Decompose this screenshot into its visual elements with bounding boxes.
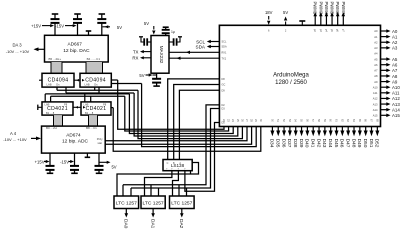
bus CD4021 to ADC right	[89, 115, 98, 126]
wire net E (CD4021 clock to D24)	[44, 94, 46, 102]
svg-text:SDA: SDA	[222, 46, 227, 49]
ADC U6 AD674	[42, 126, 106, 153]
DAC U12 LTC1257	[170, 196, 195, 209]
svg-text:LAB: LAB	[47, 83, 52, 87]
svg-text:B0 ...2H: B0 ...2H	[46, 126, 57, 130]
svg-text:DA0: DA0	[123, 219, 129, 229]
wire Arduino GC to LS138 B	[174, 85, 220, 160]
svg-text:+15V: +15V	[35, 159, 45, 164]
svg-text:A15: A15	[392, 113, 400, 118]
svg-text:RX: RX	[132, 56, 138, 61]
svg-text:D52: D52	[374, 139, 380, 148]
svg-text:A1: A1	[392, 34, 398, 39]
capacitor C4 (+15V bypass)	[49, 153, 51, 166]
svg-text:5V: 5V	[111, 164, 116, 169]
svg-text:A11: A11	[392, 91, 400, 96]
svg-text:A7: A7	[392, 68, 398, 73]
svg-text:B5 ...2H+: B5 ...2H+	[49, 57, 62, 61]
svg-text:D35: D35	[275, 139, 281, 148]
wire net B (CD4094R pin2 to D29)	[111, 83, 141, 85]
svg-text:A14: A14	[392, 107, 400, 112]
bus CD4021 to ADC left	[54, 115, 63, 126]
svg-text:D47: D47	[344, 139, 350, 148]
wire net H (CD4021R out to D30)	[111, 107, 113, 109]
svg-text:A8: A8	[374, 74, 378, 78]
svg-text:PWM4: PWM4	[324, 2, 329, 15]
node DA1 output	[152, 209, 154, 214]
svg-text:D36: D36	[280, 139, 286, 148]
node RX	[143, 57, 151, 59]
capacitor C7 (1u)	[163, 26, 169, 28]
IC U7 MAX232	[151, 36, 169, 74]
wire LS138 Y3 to Arduino D5	[185, 123, 220, 192]
shift register U3 CD4094	[80, 73, 111, 87]
svg-text:LAB: LAB	[45, 102, 50, 106]
svg-text:B1 ... 8: B1 ... 8	[85, 111, 94, 115]
svg-text:5V: 5V	[144, 21, 149, 26]
svg-text:P8: P8	[64, 102, 68, 106]
wire U4-U5 link	[73, 106, 81, 108]
svg-text:AD667: AD667	[68, 41, 83, 46]
svg-text:D48: D48	[350, 139, 356, 148]
svg-text:DA 3: DA 3	[12, 42, 22, 47]
svg-text:A0: A0	[374, 29, 378, 33]
power 5V pin	[285, 22, 287, 26]
wire MAX232 to Arduino RX1	[169, 51, 219, 53]
wire ADC stat to D28	[105, 127, 251, 145]
node SCL	[211, 41, 220, 43]
shift register U2 CD4094	[42, 73, 74, 87]
svg-text:A1: A1	[374, 35, 378, 39]
label 5V	[103, 26, 111, 28]
svg-text:A10: A10	[392, 85, 400, 90]
svg-text:LTC 1257: LTC 1257	[171, 201, 192, 207]
svg-text:D50: D50	[362, 139, 368, 148]
capacitor C10 bottom	[156, 73, 158, 79]
ground ADC	[86, 153, 88, 157]
svg-text:A8: A8	[392, 74, 398, 79]
svg-text:PWM5: PWM5	[330, 2, 335, 15]
svg-text:RX1: RX1	[222, 52, 227, 55]
svg-text:D51: D51	[368, 139, 374, 148]
svg-text:D42: D42	[315, 139, 321, 148]
svg-text:PWM3: PWM3	[318, 2, 323, 15]
svg-text:DA2: DA2	[178, 219, 184, 229]
svg-text:CD4094: CD4094	[85, 77, 106, 83]
svg-text:18V: 18V	[265, 10, 273, 15]
svg-text:A2: A2	[374, 40, 378, 44]
svg-text:-10V ... +10V: -10V ... +10V	[3, 137, 27, 142]
wire LS138 Y1 to LTC2 CS	[145, 171, 172, 196]
DAC U11 LTC1257	[141, 196, 165, 209]
svg-text:A4: A4	[374, 52, 378, 56]
svg-text:A5: A5	[392, 57, 398, 62]
capacitor C6 (5V bypass)	[98, 153, 100, 166]
svg-text:A12: A12	[373, 97, 378, 101]
svg-text:SDA: SDA	[196, 44, 206, 49]
svg-text:A6: A6	[374, 63, 378, 67]
wire Arduino D2 to LTC CLK rail	[123, 105, 219, 185]
wire Arduino D9 to LS138 A	[179, 90, 219, 159]
node DA 3 output	[37, 48, 45, 50]
shift register U4 CD4021	[42, 102, 73, 115]
input stub U4 left	[37, 105, 39, 110]
svg-text:-15V: -15V	[60, 159, 69, 164]
ground	[88, 31, 90, 35]
wire LS138 Y2 to LTC3 CS	[173, 171, 179, 196]
svg-text:B1 ... 8: B1 ... 8	[46, 111, 55, 115]
svg-text:B8 ...C1: B8 ...C1	[86, 126, 97, 130]
digital pins D34-D52	[271, 127, 273, 132]
svg-text:GC: GC	[222, 84, 226, 87]
svg-text:D46: D46	[339, 139, 345, 148]
capacitor C3 (5V bypass)	[99, 13, 106, 15]
svg-text:A10: A10	[373, 85, 378, 89]
capacitor C8 left	[147, 41, 152, 43]
wire net C (CD4094L clock to D26)	[56, 87, 58, 90]
svg-text:D41: D41	[310, 139, 316, 148]
svg-text:A0: A0	[392, 29, 398, 34]
svg-text:A15: A15	[373, 114, 378, 118]
svg-text:A11: A11	[373, 91, 378, 95]
PWM output pins PWM2-PWM7	[314, 16, 316, 26]
MCU U8 ArduinoMega	[219, 25, 380, 126]
svg-text:12 bip. DAC: 12 bip. DAC	[63, 48, 90, 54]
svg-text:A7: A7	[374, 69, 378, 73]
svg-text:D49: D49	[356, 139, 362, 148]
wire U2-U3 link	[74, 79, 80, 81]
bus DAC to CD4094 left	[51, 62, 62, 73]
stub U2 left	[39, 79, 42, 81]
svg-text:C: C	[167, 162, 169, 165]
svg-text:A13: A13	[392, 102, 400, 107]
wire Arduino D8 to LS138 C	[168, 79, 220, 160]
svg-text:TX1: TX1	[222, 57, 227, 60]
label 5V	[99, 161, 107, 163]
svg-text:CD4094: CD4094	[48, 77, 69, 83]
decoder U9 LS138	[163, 160, 192, 171]
DAC U1 AD667	[45, 35, 109, 62]
svg-text:A9: A9	[374, 80, 378, 84]
svg-text:A13: A13	[373, 102, 378, 106]
svg-text:DA1: DA1	[149, 219, 155, 229]
svg-text:1μ: 1μ	[171, 30, 175, 34]
svg-text:TX: TX	[133, 50, 139, 55]
bus DAC to CD4094 right	[86, 62, 103, 73]
wire net D (CD4094L data to D25)	[65, 87, 67, 93]
shift register U5 CD4021	[81, 102, 111, 115]
wire MAX232 to Arduino TX1	[169, 57, 219, 59]
svg-text:PWM6: PWM6	[335, 2, 340, 15]
svg-text:+15V: +15V	[31, 23, 41, 28]
svg-text:LTC 1257: LTC 1257	[116, 201, 137, 207]
svg-text:12 bip. ADC: 12 bip. ADC	[62, 138, 89, 144]
svg-text:A14: A14	[373, 108, 378, 112]
svg-text:D45: D45	[333, 139, 339, 148]
svg-text:A3: A3	[392, 46, 398, 51]
svg-text:PWM2: PWM2	[313, 2, 318, 15]
wire LS138 Y0 to LTC1 CS	[117, 163, 199, 197]
svg-text:1280 / 2560: 1280 / 2560	[275, 80, 307, 86]
svg-text:-15V: -15V	[55, 23, 64, 28]
svg-text:A12: A12	[392, 96, 400, 101]
svg-text:D38: D38	[292, 139, 298, 148]
svg-text:D34: D34	[269, 139, 275, 148]
svg-text:MAX232: MAX232	[159, 46, 164, 64]
svg-text:5V: 5V	[139, 73, 144, 78]
wire LS138 Y4 stub	[190, 171, 192, 174]
wire ADC Prdy to D27	[105, 127, 247, 141]
svg-text:-10V ... +10V: -10V ... +10V	[6, 49, 30, 54]
svg-text:stat: stat	[97, 141, 102, 145]
node SDA	[211, 46, 220, 48]
ground pin	[301, 21, 303, 25]
svg-text:LTC 1257: LTC 1257	[143, 201, 164, 207]
capacitor C9 right	[169, 41, 174, 43]
svg-text:A6: A6	[392, 63, 398, 68]
svg-text:LAB: LAB	[84, 102, 89, 106]
node DA0 output	[125, 209, 127, 214]
wire net F (CD4021 latch to D23)	[50, 96, 52, 102]
svg-text:PWM7: PWM7	[341, 2, 346, 15]
svg-text:D37: D37	[286, 139, 292, 148]
capacitor C1 (+15V bypass)	[52, 13, 59, 15]
node DA2 output	[181, 209, 183, 214]
svg-text:5V: 5V	[117, 25, 122, 30]
svg-text:ArduinoMega: ArduinoMega	[273, 73, 309, 79]
svg-text:A9: A9	[392, 79, 398, 84]
wire net A (CD4094R pin1 to D22)	[111, 79, 117, 81]
svg-text:A2: A2	[392, 40, 398, 45]
svg-text:D44: D44	[327, 139, 333, 148]
svg-text:5V: 5V	[283, 10, 288, 15]
DAC U10 LTC1257	[114, 196, 139, 209]
node TX	[143, 51, 151, 53]
capacitor C2 (-15V bypass)	[74, 13, 81, 15]
svg-text:D43: D43	[321, 139, 327, 148]
wire Arduino D3 to LTC DATA rail	[131, 109, 219, 189]
svg-text:SCL: SCL	[222, 41, 227, 44]
svg-text:A3: A3	[374, 46, 378, 50]
svg-text:B4 ......C1: B4 ......C1	[87, 57, 101, 61]
svg-text:D40: D40	[304, 139, 310, 148]
svg-text:LAB: LAB	[85, 83, 90, 87]
svg-text:A5: A5	[374, 57, 378, 61]
svg-text:A 4: A 4	[10, 131, 17, 136]
svg-text:P8: P8	[103, 102, 107, 106]
svg-text:D39: D39	[298, 139, 304, 148]
capacitor C5 (-15V bypass)	[74, 153, 76, 166]
svg-text:AD674: AD674	[66, 132, 81, 137]
